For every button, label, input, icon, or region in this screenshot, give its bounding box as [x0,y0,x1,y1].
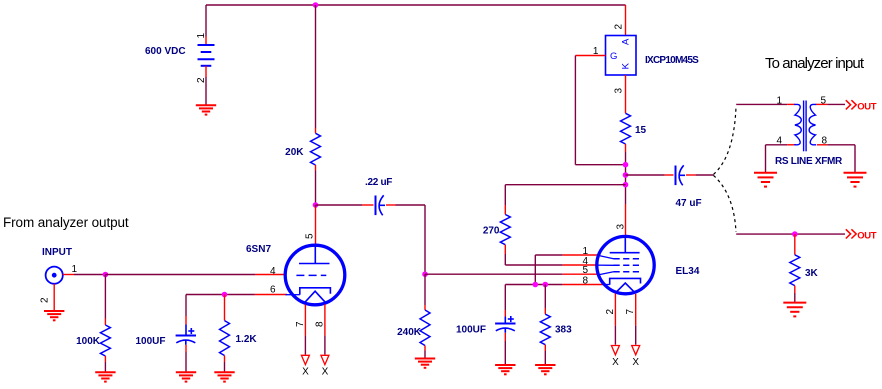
svg-text:K: K [621,62,632,69]
svg-text:100UF: 100UF [136,336,166,347]
svg-text:240K: 240K [397,327,422,338]
svg-text:.22 uF: .22 uF [365,177,392,188]
svg-text:1: 1 [72,264,78,275]
svg-text:1: 1 [196,33,207,39]
svg-text:X: X [322,367,329,378]
svg-text:3: 3 [614,88,625,94]
svg-text:G: G [610,51,617,62]
svg-text:47 uF: 47 uF [676,198,702,209]
svg-text:20K: 20K [285,147,304,158]
svg-text:100K: 100K [76,336,101,347]
svg-text:3K: 3K [805,268,819,279]
svg-text:A: A [621,38,632,45]
svg-text:100UF: 100UF [456,325,486,336]
svg-text:From analyzer output: From analyzer output [3,215,129,230]
svg-text:600 VDC: 600 VDC [145,46,186,57]
svg-text:5: 5 [821,95,827,106]
svg-text:2: 2 [605,309,616,315]
svg-text:1: 1 [593,46,599,57]
svg-text:4: 4 [270,266,276,277]
svg-text:OUT: OUT [857,231,876,242]
svg-text:INPUT: INPUT [42,247,72,258]
svg-text:EL34: EL34 [676,266,700,277]
svg-text:15: 15 [635,125,647,136]
svg-text:8: 8 [822,136,828,147]
svg-text:1: 1 [776,95,782,106]
svg-text:X: X [612,357,619,368]
svg-text:2: 2 [196,77,207,83]
svg-text:To analyzer input: To analyzer input [765,55,865,72]
svg-text:1.2K: 1.2K [236,334,258,345]
svg-text:383: 383 [555,325,572,336]
svg-text:2: 2 [614,24,625,30]
svg-text:2: 2 [40,297,51,303]
svg-text:6SN7: 6SN7 [246,244,271,255]
svg-text:OUT: OUT [857,102,876,113]
svg-text:X: X [632,357,639,368]
svg-text:8: 8 [314,321,325,327]
svg-text:X: X [302,367,309,378]
svg-text:270: 270 [483,226,500,237]
svg-text:5: 5 [304,233,315,239]
svg-text:3: 3 [616,224,627,230]
svg-text:7: 7 [625,309,636,315]
svg-text:7: 7 [295,321,306,327]
svg-text:IXCP10M45S: IXCP10M45S [645,55,699,66]
svg-text:8: 8 [583,275,589,286]
svg-text:RS LINE XFMR: RS LINE XFMR [775,156,843,167]
svg-text:6: 6 [270,285,276,296]
svg-text:4: 4 [776,136,782,147]
